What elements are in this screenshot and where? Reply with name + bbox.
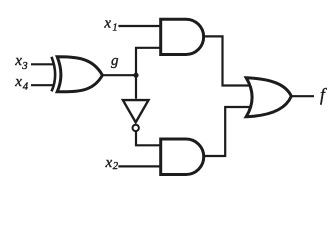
svg-text:f: f bbox=[320, 84, 327, 104]
svg-text:2: 2 bbox=[113, 160, 119, 172]
svg-text:x: x bbox=[105, 155, 113, 171]
svg-text:x: x bbox=[14, 53, 22, 69]
svg-text:1: 1 bbox=[113, 22, 118, 33]
svg-text:4: 4 bbox=[23, 80, 29, 92]
svg-text:x: x bbox=[103, 15, 111, 31]
svg-text:g: g bbox=[111, 53, 119, 69]
svg-text:x: x bbox=[14, 74, 22, 90]
svg-text:3: 3 bbox=[21, 60, 28, 72]
